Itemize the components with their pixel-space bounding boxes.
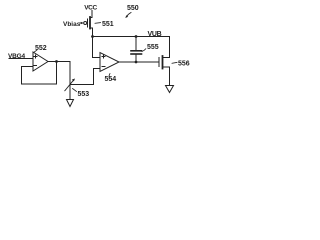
svg-text:552: 552 [35, 45, 47, 52]
wire VUB net (horizontal rail) [93, 36, 170, 38]
wire 552 feedback loop [22, 62, 57, 85]
label 554 [105, 74, 117, 84]
svg-text:555: 555 [147, 44, 159, 51]
transistor Q 551 (PMOS) [84, 17, 93, 37]
svg-text:556: 556 [178, 61, 190, 68]
junction capacitor top node [135, 35, 138, 38]
op-amp U 552 [33, 52, 48, 71]
ground (below NMOS 556) [166, 86, 174, 93]
svg-text:554: 554 [105, 76, 117, 83]
wire VUB to op-amp + input [93, 37, 101, 58]
svg-text:VUB: VUB [148, 31, 162, 38]
svg-text:551: 551 [102, 21, 114, 28]
wire 552 output [48, 61, 70, 63]
wire VBG4 lead [9, 58, 33, 60]
variable element 553 (arrow across wire) [65, 79, 75, 91]
junction capacitor bottom node [135, 61, 138, 64]
wire op-amp 554 minus input path [70, 69, 100, 85]
label 551 [95, 21, 114, 28]
label 552 [34, 45, 47, 52]
label 553 [73, 89, 90, 99]
junction drain node [91, 35, 94, 38]
ground (below 553) [67, 100, 74, 107]
junction 552 output node [55, 60, 58, 63]
svg-text:550: 550 [127, 5, 139, 12]
wire VCC stub [91, 11, 93, 18]
wire 552 output down through 553 to ground [69, 62, 71, 100]
svg-text:VCC: VCC [84, 4, 97, 11]
op-amp U 554 [100, 53, 119, 72]
node Vbias input label with arrow [63, 21, 84, 28]
label 555 [142, 44, 159, 52]
label 556 [172, 61, 190, 68]
transistor Q 556 (NMOS) [159, 37, 170, 86]
svg-text:Vbias: Vbias [63, 21, 81, 28]
figure label 550 with arrow [125, 5, 138, 18]
wire op-amp 554 output to NMOS gate [119, 61, 159, 63]
svg-text:553: 553 [78, 91, 90, 98]
capacitor C 555 [131, 37, 142, 63]
